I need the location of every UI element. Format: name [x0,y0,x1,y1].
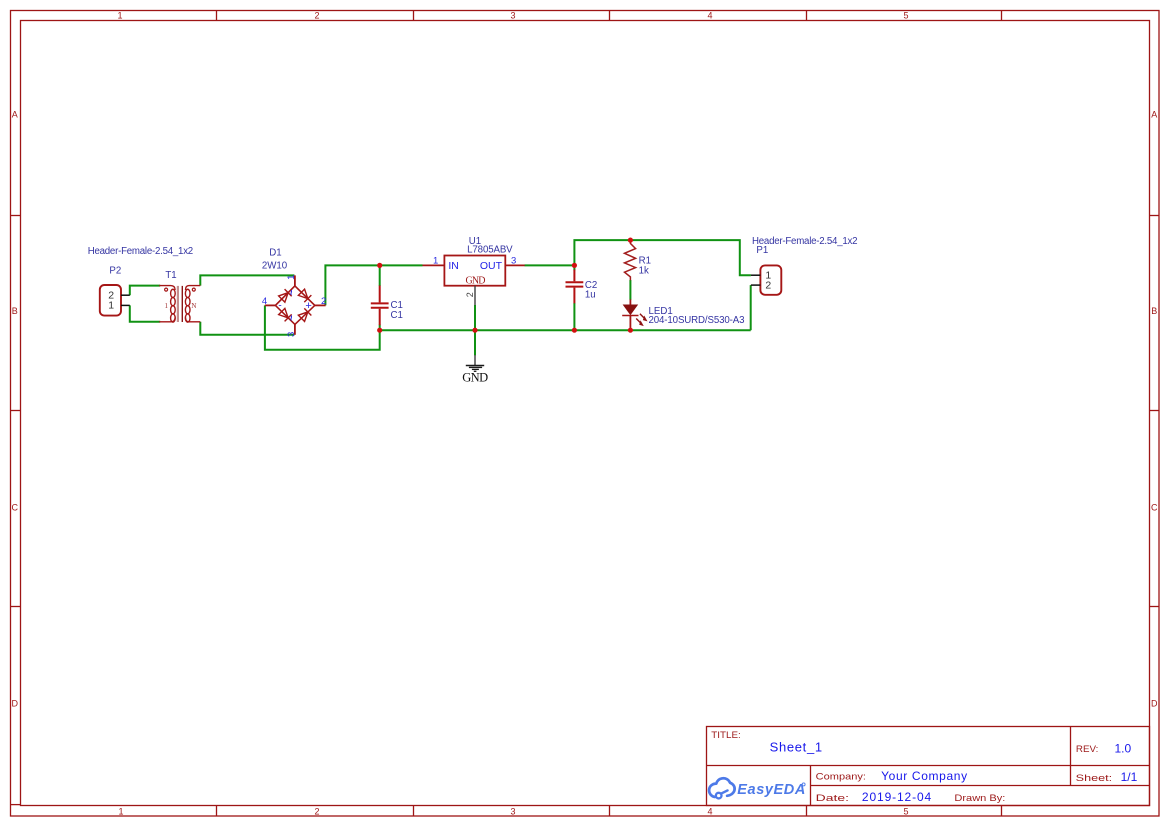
EasyEDA logo cloud [709,778,735,798]
svg-text:204-10SURD/S530-A3: 204-10SURD/S530-A3 [649,315,745,326]
svg-text:L7805ABV: L7805ABV [467,245,513,256]
transformer T1 secondary winding [185,286,200,323]
svg-text:IN: IN [448,260,459,272]
svg-text:4: 4 [707,807,712,817]
svg-text:2: 2 [465,292,475,297]
junction node C2 top [572,263,577,268]
ground symbol GND [466,355,484,371]
wire C2 bottom branch [573,303,575,330]
title block logo cell divider [810,766,812,806]
row tick marks right [1150,216,1160,607]
transformer T1 core [177,286,179,322]
svg-text:3: 3 [510,10,515,20]
svg-text:C1: C1 [391,310,403,321]
bridge D1 diode bottom-right [298,308,311,321]
resistor R1 [625,240,636,280]
svg-text:Company:: Company: [816,772,866,783]
bridge D1 diode bottom-left [278,308,291,321]
row labels right [1151,110,1158,709]
svg-text:-: - [278,301,281,312]
svg-text:1: 1 [118,807,123,817]
svg-text:D: D [11,699,18,709]
svg-text:4: 4 [707,10,712,20]
svg-text:D: D [1151,699,1158,709]
regulator U1 body [444,256,505,286]
wire C1 bottom branch [379,325,381,331]
connector P2 pin numbers [108,289,114,311]
column labels top [117,10,908,20]
connector P1 [760,265,781,294]
connector P1 pin stubs [751,275,761,285]
svg-text:GND: GND [466,276,486,287]
svg-text:1: 1 [433,256,438,267]
EasyEDA logo registered mark [802,783,805,786]
transformer T1 ratio marks 1 and N [165,302,197,310]
wire P1 pin2 down to ground rail [750,285,752,330]
wire bridge pin4 to ground node [265,305,380,349]
U1 pin 3 [505,264,524,266]
wire P2 pin2 to transformer primary top [130,286,160,296]
svg-text:3: 3 [510,807,515,817]
row labels left [11,110,18,709]
svg-text:Date:: Date: [816,793,849,804]
bridge D1 pin 4 (left) [265,304,276,306]
svg-text:GND: GND [462,371,488,385]
junction node GND rail [472,328,477,333]
capacitor C2 [566,270,584,304]
transformer T1 polarity dots [165,288,168,291]
svg-text:T1: T1 [165,270,176,281]
svg-text:1u: 1u [585,289,596,300]
title block row divider 2 [811,785,1150,787]
bridge D1 pin 2 (right) [315,304,326,306]
row tick marks left [11,216,21,805]
svg-text:TITLE:: TITLE: [711,730,741,741]
TITLEBLOCK [707,727,1150,806]
U1 pin 1 [423,264,445,266]
svg-text:3: 3 [511,256,516,267]
svg-text:~: ~ [287,315,298,321]
svg-text:EasyEDA: EasyEDA [737,782,805,798]
wire C2 top branch [573,265,575,270]
bridge D1 diode top-left [278,289,291,302]
svg-text:Drawn By:: Drawn By: [954,793,1005,804]
svg-text:5: 5 [903,10,908,20]
wire P2 pin1 to transformer primary bottom [130,305,160,321]
title block outline [707,727,1150,806]
LED1 emission arrows [636,314,647,326]
svg-text:1: 1 [165,302,169,310]
svg-text:5: 5 [903,807,908,817]
svg-text:1/1: 1/1 [1121,770,1138,784]
svg-text:A: A [1151,110,1157,120]
bridge rectifier D1 body [275,286,314,325]
junction node LED1 bottom [628,328,633,333]
svg-text:C: C [1151,502,1158,512]
transformer T1 primary winding [159,286,175,323]
svg-text:2: 2 [314,807,319,817]
connector P1 pin numbers [765,270,771,292]
wire transformer secondary bottom to bridge pin3 [200,322,294,335]
column labels bottom [118,807,908,817]
svg-text:1: 1 [108,300,114,312]
column tick marks bottom [217,806,1002,817]
junction node C2 bottom [572,328,577,333]
svg-text:B: B [1151,306,1157,316]
wire R1 bottom to LED1 top [629,280,631,300]
svg-text:Your Company: Your Company [881,769,967,783]
title block row divider 1 [707,765,1150,767]
svg-text:2: 2 [765,280,771,292]
bridge D1 pin 3 (bottom) [294,324,296,334]
svg-text:Header-Female-2.54_1x2: Header-Female-2.54_1x2 [88,246,194,257]
svg-text:2: 2 [314,10,319,20]
svg-text:+: + [305,300,311,312]
svg-text:1: 1 [286,275,297,280]
svg-text:1: 1 [117,10,122,20]
connector P2 pin stubs [121,295,130,305]
svg-text:D1: D1 [269,248,281,259]
svg-text:OUT: OUT [480,260,503,272]
capacitor C1 [371,286,389,326]
svg-text:2019-12-04: 2019-12-04 [862,790,932,804]
svg-text:~: ~ [287,290,298,296]
bridge D1 diode top-right [298,289,311,302]
svg-text:P1: P1 [756,245,768,256]
svg-text:A: A [12,110,18,120]
column tick marks top [217,11,1002,21]
svg-text:N: N [191,302,196,310]
svg-text:3: 3 [286,332,297,337]
wire U1 pin2 to ground rail [474,305,476,330]
connector P2 [100,285,121,316]
bridge D1 pin 1 (top) [294,275,296,286]
svg-text:REV:: REV: [1076,744,1099,755]
wire C2 node up and across to P1 pin1 [574,240,751,275]
svg-text:C: C [11,502,18,512]
wire ground rail [380,329,751,331]
svg-text:1.0: 1.0 [1115,741,1132,755]
svg-text:4: 4 [262,296,267,307]
svg-text:P2: P2 [109,265,121,276]
title block rev column divider [1070,727,1072,786]
svg-text:Sheet_1: Sheet_1 [770,740,823,755]
svg-text:B: B [12,306,18,316]
svg-text:Sheet:: Sheet: [1076,773,1113,784]
U1 pin 2 [474,286,476,306]
LED LED1 [622,299,638,330]
svg-text:2: 2 [321,296,326,307]
wire ground rail to GND symbol [474,330,476,355]
wire C1 top branch [379,265,381,286]
svg-text:1k: 1k [639,265,649,276]
svg-text:2W10: 2W10 [262,260,288,271]
SCHEMATIC [88,236,858,385]
wire transformer secondary top to bridge pin1 [200,275,294,285]
junction node C1 bottom [377,328,382,333]
wire U1 OUT to C2 node [525,264,575,266]
junction node R1 top [628,238,633,243]
wire bridge pin2 to U1 IN [325,265,422,305]
junction node C1 top [377,263,382,268]
